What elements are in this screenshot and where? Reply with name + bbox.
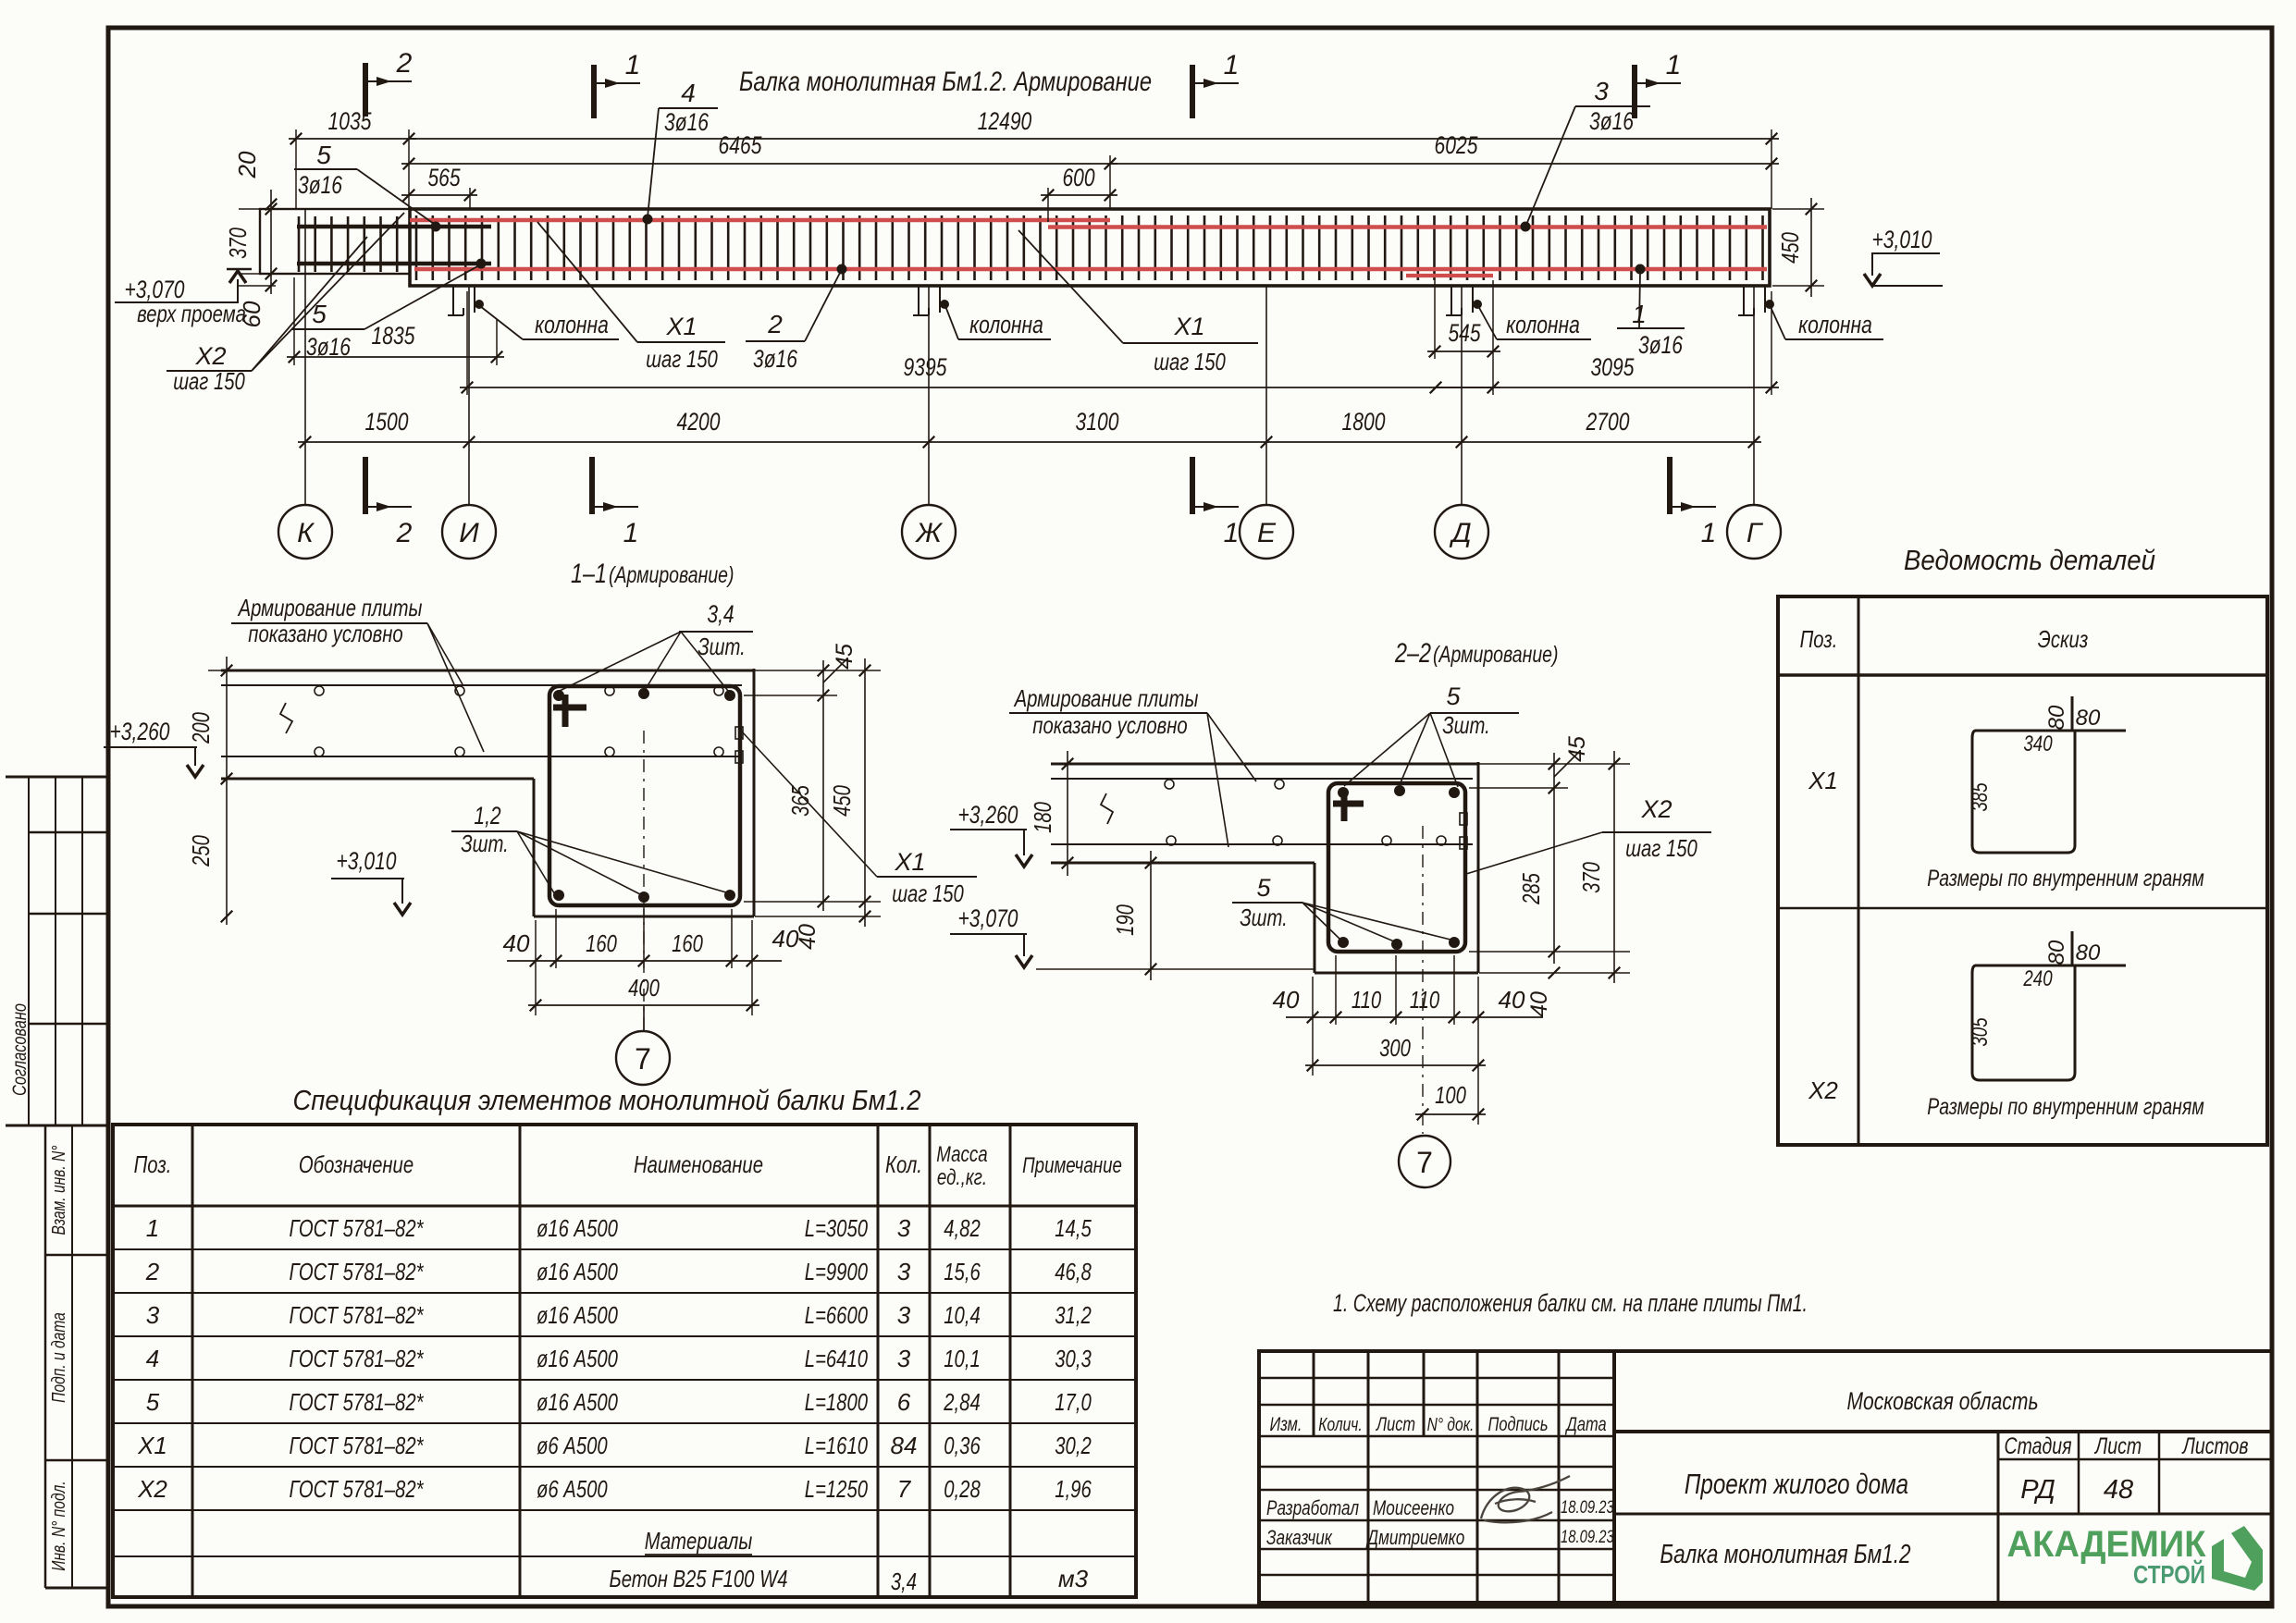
elevation mark +3,070 верх проема left [115, 269, 252, 327]
svg-text:80: 80 [2044, 705, 2069, 730]
svg-text:L=6410: L=6410 [805, 1345, 869, 1372]
grid circle Ж [902, 505, 956, 559]
svg-text:+3,010: +3,010 [337, 847, 397, 875]
rebar piece 3 top red (3ø16 L=6600) [1048, 225, 1767, 229]
grid circle К [278, 505, 332, 559]
svg-text:ГОСТ 5781–82*: ГОСТ 5781–82* [290, 1345, 425, 1372]
svg-text:250: 250 [187, 835, 215, 867]
svg-text:160: 160 [672, 929, 703, 957]
svg-text:Зшт.: Зшт. [1442, 711, 1490, 739]
2-2 slab break symbol [1101, 793, 1113, 824]
2-2 bottom dims 40 110 110 40 / 300 / 100 [1273, 955, 1543, 1125]
svg-text:2,84: 2,84 [943, 1388, 980, 1416]
spec row 5 [137, 1289, 2272, 1603]
svg-text:колонна: колонна [535, 311, 609, 338]
svg-text:Согласовано: Согласовано [9, 1003, 31, 1096]
svg-text:110: 110 [1352, 986, 1382, 1014]
svg-text:3ø16: 3ø16 [753, 345, 798, 373]
svg-text:240: 240 [2023, 966, 2053, 991]
svg-text:Московская область: Московская область [1846, 1387, 2038, 1415]
svg-text:5: 5 [312, 300, 327, 328]
2-2 slab outline and rebar lines [1051, 764, 1478, 863]
svg-text:(Армирование): (Армирование) [609, 562, 734, 588]
svg-text:3: 3 [897, 1345, 911, 1372]
spec row X2 [137, 1289, 2272, 1603]
svg-text:15,6: 15,6 [944, 1258, 981, 1285]
spec row 4 [137, 1289, 2272, 1603]
svg-text:Примечание: Примечание [1022, 1153, 1122, 1178]
svg-text:L=9900: L=9900 [805, 1258, 869, 1285]
svg-text:370: 370 [1577, 862, 1605, 893]
svg-text:Колич.: Колич. [1318, 1415, 1362, 1435]
1-1 left dims 200 250 [187, 657, 242, 925]
svg-text:колонна: колонна [1506, 311, 1580, 338]
svg-text:шаг 150: шаг 150 [646, 345, 718, 373]
svg-text:Зшт.: Зшт. [697, 633, 746, 660]
svg-text:30,2: 30,2 [1055, 1432, 1092, 1459]
left vertical dims 20 370 60 [224, 151, 277, 327]
svg-text:18.09.23: 18.09.23 [1561, 1528, 1614, 1547]
leader dot on piece 1 [1636, 264, 1646, 275]
svg-text:1–1: 1–1 [571, 559, 607, 589]
svg-text:4,82: 4,82 [944, 1214, 981, 1242]
svg-text:шаг 150: шаг 150 [892, 879, 964, 907]
svg-text:X2: X2 [1640, 795, 1672, 823]
ведомость table grid [1778, 596, 2267, 1145]
спецификация table grid [113, 1125, 1136, 1597]
svg-text:Балка монолитная Бм1.2. Армиро: Балка монолитная Бм1.2. Армирование [739, 67, 1152, 97]
svg-text:Материалы: Материалы [645, 1527, 753, 1555]
заказчик row [1266, 1526, 1614, 1549]
section marker 1 top-mid [591, 65, 597, 118]
1-1 slab rebar circles [315, 686, 723, 756]
svg-text:80: 80 [2044, 940, 2069, 965]
svg-text:Ведомость деталей: Ведомость деталей [1904, 544, 2155, 576]
1-1 beam outline [534, 669, 754, 916]
svg-text:2: 2 [767, 310, 783, 338]
label 1 3ø16 [1617, 272, 1685, 359]
svg-text:N° док.: N° док. [1427, 1415, 1475, 1435]
svg-text:Размеры по внутренним граням: Размеры по внутренним граням [1927, 866, 2203, 891]
svg-text:ø6 А500: ø6 А500 [537, 1432, 608, 1459]
svg-text:3,4: 3,4 [707, 600, 734, 628]
section marker 1 bottom-mid [589, 457, 595, 514]
svg-text:100: 100 [1435, 1081, 1466, 1109]
svg-text:Спецификация элементов монолит: Спецификация элементов монолитной балки … [293, 1084, 921, 1116]
svg-text:1: 1 [1666, 50, 1682, 80]
svg-text:ГОСТ 5781–82*: ГОСТ 5781–82* [290, 1214, 425, 1242]
svg-text:колонна: колонна [1798, 311, 1872, 338]
svg-text:0,28: 0,28 [944, 1475, 981, 1503]
grid line Zh [928, 286, 930, 506]
svg-text:ø16 А500: ø16 А500 [537, 1214, 618, 1242]
svg-text:ГОСТ 5781–82*: ГОСТ 5781–82* [290, 1258, 425, 1285]
svg-text:ГОСТ 5781–82*: ГОСТ 5781–82* [290, 1301, 425, 1329]
svg-text:верх проема: верх проема [137, 300, 246, 327]
column symbol at G [1743, 286, 1745, 315]
1-1 axis circle 7 [643, 1005, 645, 1031]
grid circle Д [1435, 505, 1488, 559]
svg-text:80: 80 [2076, 706, 2101, 731]
section marker 1 top-right-b [1632, 65, 1637, 118]
title block header row labels [1270, 1414, 1607, 1435]
svg-text:6465: 6465 [719, 131, 763, 159]
svg-text:6: 6 [897, 1388, 911, 1416]
2-2 label 5 3шт top [1344, 682, 1519, 787]
1-1 stirrup X1 cross-section [549, 686, 740, 905]
1-1 elevation mark +3,260 [104, 718, 204, 777]
svg-text:Армирование плиты: Армирование плиты [1013, 684, 1198, 712]
svg-text:3ø16: 3ø16 [664, 108, 710, 136]
svg-text:400: 400 [628, 974, 660, 1002]
2-2 label армирование плиты показано условно [1009, 684, 1256, 847]
title block right part [1614, 1432, 2272, 1603]
dim 1035 [289, 138, 416, 140]
svg-text:РД: РД [2020, 1475, 2055, 1505]
svg-text:L=1610: L=1610 [805, 1432, 869, 1459]
svg-text:1: 1 [625, 50, 641, 80]
2-2 centerline [1422, 826, 1424, 1134]
svg-text:Изм.: Изм. [1270, 1414, 1302, 1435]
svg-text:0,36: 0,36 [944, 1432, 981, 1459]
svg-text:4200: 4200 [677, 408, 721, 436]
1-1 label армирование плиты показано условно [231, 594, 484, 752]
svg-text:5: 5 [1256, 874, 1271, 902]
svg-text:1835: 1835 [372, 322, 416, 350]
stirrups X1 in main beam [416, 215, 1763, 280]
section marker 2 top [363, 63, 368, 117]
X2 stirrup sketch [1976, 965, 2126, 967]
svg-text:показано условно: показано условно [1032, 711, 1187, 739]
label 5 3ø16 top-left [294, 141, 434, 224]
svg-text:20: 20 [233, 151, 261, 178]
svg-text:Инв. N° подл.: Инв. N° подл. [49, 1481, 69, 1570]
svg-text:ø16 А500: ø16 А500 [537, 1388, 618, 1416]
2-2 right dims 45 285 370 40 [1469, 736, 1630, 1017]
svg-text:1,96: 1,96 [1055, 1475, 1092, 1503]
svg-text:X1: X1 [1173, 313, 1204, 340]
svg-text:Лист: Лист [2093, 1433, 2142, 1459]
svg-text:Ж: Ж [914, 518, 943, 548]
svg-text:Д: Д [1449, 518, 1471, 548]
svg-text:200: 200 [187, 712, 215, 744]
логотип значок дом [2212, 1526, 2263, 1591]
grid line G [1753, 286, 1755, 506]
svg-text:Зшт.: Зшт. [461, 830, 509, 857]
svg-text:1500: 1500 [365, 408, 409, 436]
2-2 axis circle 7 [1399, 1136, 1450, 1187]
rebar piece 1 lap stub red (3ø16 L=3050) [1406, 274, 1493, 277]
2-2 slab rebar circles [1165, 780, 1446, 845]
label 4 3ø16 top [648, 79, 718, 217]
title block left part grid [1259, 1351, 1614, 1603]
1-1 centerline [643, 731, 645, 1031]
svg-text:Кол.: Кол. [885, 1150, 922, 1178]
svg-text:шаг 150: шаг 150 [1154, 348, 1226, 375]
svg-text:305: 305 [1968, 1017, 1993, 1047]
grid line D [1461, 286, 1463, 506]
svg-text:ø16 А500: ø16 А500 [537, 1345, 618, 1372]
label X1 шаг 150 first [537, 222, 725, 373]
2-2 left dims 180 190 [1029, 751, 1315, 980]
grid circle И [442, 505, 496, 559]
1-1 label 3,4 3шт [560, 600, 753, 692]
svg-text:365: 365 [786, 785, 814, 817]
grid line I [468, 286, 470, 506]
2-2 fixture cross symbol [1333, 801, 1364, 807]
svg-text:31,2: 31,2 [1055, 1301, 1092, 1329]
section marker 1 bottom-E [1190, 457, 1195, 514]
dim 6465 [401, 163, 1117, 165]
1-1 fixture cross symbol [553, 705, 586, 711]
label X2 шаг 150 [167, 213, 404, 395]
svg-text:5: 5 [316, 141, 331, 169]
svg-text:Дата: Дата [1565, 1414, 1607, 1435]
svg-text:3100: 3100 [1076, 408, 1119, 436]
svg-text:1: 1 [146, 1214, 159, 1242]
svg-text:7: 7 [897, 1475, 912, 1503]
1-1 elevation mark +3,010 [331, 847, 411, 915]
svg-text:5: 5 [1446, 682, 1461, 710]
svg-text:3,4: 3,4 [891, 1568, 917, 1595]
spec row X1 [137, 1289, 2272, 1603]
grid dim row 1500 4200 3100 1800 2700 [298, 408, 1761, 448]
svg-text:шаг 150: шаг 150 [173, 367, 245, 395]
svg-text:10,1: 10,1 [944, 1345, 981, 1372]
svg-text:545: 545 [1448, 319, 1481, 347]
1-1 right dims 45 365 450 40 [744, 644, 881, 950]
svg-text:2: 2 [145, 1258, 160, 1285]
leader dot on piece 4 [643, 215, 653, 225]
svg-text:45: 45 [1564, 736, 1590, 762]
svg-text:3095: 3095 [1591, 353, 1636, 381]
svg-text:Заказчик: Заказчик [1266, 1526, 1333, 1549]
svg-text:450: 450 [828, 785, 856, 817]
разработал row [1266, 1496, 1614, 1519]
dim 3095 [1436, 387, 1779, 388]
svg-text:(Армирование): (Армирование) [1433, 642, 1559, 668]
grid circle Г [1727, 505, 1781, 559]
svg-text:+3,010: +3,010 [1872, 226, 1932, 253]
rebar piece 5 top bar (3ø16 L=1800) [297, 225, 491, 229]
svg-text:Стадия: Стадия [2005, 1433, 2072, 1459]
svg-text:14,5: 14,5 [1055, 1214, 1092, 1242]
svg-text:5: 5 [146, 1388, 160, 1416]
svg-text:110: 110 [1410, 986, 1440, 1014]
svg-text:Листов: Листов [2181, 1433, 2249, 1459]
section marker 1 bottom-G [1667, 457, 1673, 514]
svg-text:И: И [459, 518, 479, 548]
svg-text:Подп. и дата: Подп. и дата [49, 1312, 69, 1403]
dim 6025 [1110, 163, 1779, 165]
svg-text:X2: X2 [1808, 1076, 1838, 1104]
grid circle Е [1240, 505, 1293, 559]
svg-text:40: 40 [1273, 986, 1300, 1014]
label X1 шаг 150 second [1018, 230, 1258, 375]
svg-text:L=1250: L=1250 [805, 1475, 869, 1503]
svg-text:3ø16: 3ø16 [1589, 107, 1635, 135]
svg-text:84: 84 [891, 1432, 918, 1459]
dim 1835 [287, 356, 504, 358]
svg-text:2: 2 [396, 48, 413, 79]
1-1 label X1 шаг 150 [735, 727, 977, 907]
svg-text:46,8: 46,8 [1055, 1258, 1092, 1285]
svg-text:300: 300 [1379, 1034, 1411, 1062]
svg-text:40: 40 [503, 929, 530, 957]
dim 600 [1041, 194, 1117, 196]
svg-text:шаг 150: шаг 150 [1625, 834, 1697, 862]
dim 565 [401, 194, 477, 196]
leader dot on piece 2 [837, 264, 847, 275]
svg-text:3: 3 [897, 1214, 911, 1242]
rebar piece 4 top red (3ø16 L=6410) [410, 218, 1110, 223]
svg-text:ед.,кг.: ед.,кг. [937, 1165, 987, 1190]
svg-text:X2: X2 [137, 1475, 167, 1503]
svg-text:ø6 А500: ø6 А500 [537, 1475, 608, 1503]
svg-text:Моисеенко: Моисеенко [1373, 1496, 1454, 1519]
svg-text:48: 48 [2104, 1475, 2133, 1505]
2-2 elevation mark +3,070 [950, 904, 1032, 967]
svg-text:Зшт.: Зшт. [1240, 904, 1288, 931]
svg-text:3ø16: 3ø16 [1638, 331, 1684, 359]
main beam outline [410, 209, 1770, 286]
svg-text:385: 385 [1968, 782, 1993, 812]
svg-text:Взам. инв. N°: Взам. инв. N° [49, 1145, 69, 1235]
svg-text:Бетон В25 F100 W4: Бетон В25 F100 W4 [610, 1565, 788, 1592]
svg-text:Эскиз: Эскиз [2038, 625, 2089, 653]
2-2 elevation mark +3,260 [950, 801, 1032, 867]
svg-text:колонна: колонна [969, 311, 1043, 338]
svg-text:X1: X1 [665, 313, 697, 340]
svg-text:3ø16: 3ø16 [306, 333, 352, 361]
svg-text:4: 4 [146, 1345, 159, 1372]
svg-text:2: 2 [396, 518, 413, 548]
svg-text:1: 1 [1701, 518, 1717, 548]
label 3 3ø16 top-right [1526, 77, 1650, 225]
svg-text:1: 1 [623, 518, 639, 548]
2-2 stirrup X2 cross-section [1328, 783, 1465, 952]
svg-text:Масса: Масса [936, 1142, 987, 1167]
svg-text:Наименование: Наименование [634, 1150, 763, 1178]
left attribute strip boxes (Согласовано) [6, 777, 108, 1125]
svg-text:45: 45 [832, 644, 858, 670]
svg-text:Разработал: Разработал [1266, 1496, 1359, 1519]
svg-text:X1: X1 [894, 848, 925, 876]
svg-text:L=1800: L=1800 [805, 1388, 869, 1416]
svg-text:2–2: 2–2 [1394, 638, 1431, 669]
svg-text:Г: Г [1747, 518, 1764, 548]
svg-text:ГОСТ 5781–82*: ГОСТ 5781–82* [290, 1432, 425, 1459]
svg-text:1: 1 [1224, 50, 1240, 80]
svg-text:600: 600 [1062, 164, 1094, 191]
svg-text:565: 565 [427, 164, 461, 191]
svg-text:ГОСТ 5781–82*: ГОСТ 5781–82* [290, 1388, 425, 1416]
spec row 2 [137, 1258, 2272, 1603]
title block outer [1259, 1351, 2272, 1603]
svg-text:7: 7 [635, 1042, 651, 1076]
svg-text:12490: 12490 [978, 107, 1032, 135]
svg-text:К: К [297, 518, 315, 548]
svg-text:Армирование плиты: Армирование плиты [237, 594, 422, 621]
2-2 beam outline [1315, 762, 1478, 973]
svg-text:10,4: 10,4 [944, 1301, 981, 1329]
svg-text:40: 40 [1499, 986, 1525, 1014]
svg-text:L=6600: L=6600 [805, 1301, 869, 1329]
svg-text:1035: 1035 [328, 107, 373, 135]
dim 545 [1427, 350, 1500, 352]
svg-text:1,2: 1,2 [474, 802, 500, 830]
beam segment above opening (K-I) outline [260, 209, 410, 274]
1-1 slab outline and rebar lines [221, 670, 754, 779]
elevation mark +3,010 right [1864, 226, 1943, 286]
signature squiggle [1481, 1476, 1570, 1522]
dim 12490 [409, 138, 1779, 140]
svg-text:Подпись: Подпись [1488, 1414, 1549, 1435]
rebar piece 2 bottom red (3ø16 L=9900) [414, 267, 1767, 272]
svg-text:2700: 2700 [1586, 408, 1630, 436]
svg-text:+3,070: +3,070 [958, 904, 1018, 932]
svg-text:Балка монолитная Бм1.2: Балка монолитная Бм1.2 [1660, 1540, 1910, 1569]
spec row 3 [137, 1289, 2272, 1603]
column symbol at I [452, 286, 454, 315]
svg-text:3: 3 [897, 1258, 911, 1285]
column symbol at Zh [918, 286, 920, 315]
svg-text:80: 80 [2076, 941, 2101, 965]
svg-text:3: 3 [1594, 77, 1609, 105]
svg-text:17,0: 17,0 [1055, 1388, 1092, 1416]
svg-text:L=3050: L=3050 [805, 1214, 869, 1242]
spec header texts [134, 1142, 1122, 1190]
svg-text:Е: Е [1257, 518, 1277, 548]
grid line K [304, 209, 306, 506]
svg-text:1: 1 [1224, 518, 1240, 548]
svg-text:285: 285 [1517, 873, 1545, 905]
2-2 label X2 шаг 150 [1466, 795, 1711, 874]
svg-text:+3,260: +3,260 [958, 801, 1018, 829]
svg-text:Проект жилого дома: Проект жилого дома [1685, 1468, 1908, 1500]
svg-text:X1: X1 [1808, 767, 1838, 794]
svg-text:3: 3 [897, 1301, 911, 1329]
leader dot on piece 5 top [431, 222, 441, 232]
svg-text:+3,260: +3,260 [110, 718, 170, 745]
svg-text:370: 370 [224, 227, 252, 259]
X1 stirrup sketch [1976, 730, 2126, 732]
svg-text:ø16 А500: ø16 А500 [537, 1301, 618, 1329]
svg-text:1800: 1800 [1342, 408, 1386, 436]
1-1 slab break symbol [280, 703, 292, 733]
svg-text:6025: 6025 [1435, 131, 1479, 159]
svg-text:18.09.23: 18.09.23 [1561, 1498, 1614, 1518]
label 5 3ø16 lower-left [292, 265, 479, 361]
grid line E [1265, 286, 1267, 506]
rebar piece 5 bottom bar (3ø16 L=1800) [297, 262, 491, 266]
left strip lower sections [45, 1125, 108, 1588]
leader dot on piece 5 bottom [476, 259, 487, 269]
svg-text:7: 7 [1416, 1146, 1433, 1179]
svg-text:9395: 9395 [904, 353, 948, 381]
svg-text:Дмитриемко: Дмитриемко [1365, 1526, 1465, 1549]
1-1 label 1,2 3шт [451, 802, 726, 896]
svg-text:190: 190 [1111, 904, 1139, 936]
leader dot on piece 3 [1521, 222, 1531, 232]
2-2 label 5 3шт bottom [1232, 874, 1450, 941]
svg-text:Поз.: Поз. [1800, 625, 1838, 653]
svg-text:160: 160 [586, 929, 617, 957]
svg-text:Лист: Лист [1375, 1414, 1415, 1435]
svg-text:АКАДЕМИК: АКАДЕМИК [2007, 1524, 2207, 1565]
svg-text:40: 40 [772, 925, 799, 953]
svg-text:1. Схему расположения балки см: 1. Схему расположения балки см. на плане… [1333, 1289, 1808, 1317]
